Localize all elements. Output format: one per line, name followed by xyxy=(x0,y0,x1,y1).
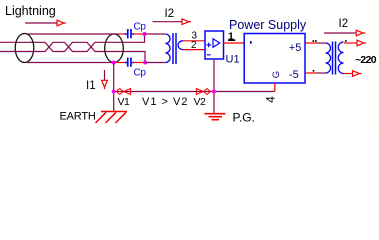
lightning surge direction arrow xyxy=(57,20,66,26)
transformer T1 core xyxy=(172,33,174,64)
node junction dot bottom (shield/cap/T1 primary) xyxy=(143,61,147,65)
svg-text:+5: +5 xyxy=(289,42,302,54)
I2 middle annotation line xyxy=(153,21,183,23)
transformer T1 secondary winding (single loop) xyxy=(178,41,183,50)
wire earth vertical (shield to EARTH ground) xyxy=(113,63,115,112)
transformer T2 phasing dots xyxy=(312,40,347,72)
wire: shield top line xyxy=(26,33,119,35)
svg-text:U1: U1 xyxy=(226,54,240,66)
power supply pin1 tick xyxy=(250,41,252,44)
twisted pair wire B (enters left, crosses, bends up to node A1) xyxy=(0,34,145,52)
node V1 dot xyxy=(112,90,116,94)
I2 right annotation arrow xyxy=(356,30,365,36)
svg-text:EARTH: EARTH xyxy=(60,110,96,122)
svg-text:Cp: Cp xyxy=(134,67,147,78)
svg-text:V2: V2 xyxy=(194,96,207,108)
transformer T1 primary lead bottom xyxy=(145,62,165,64)
svg-text:Lightning: Lightning xyxy=(5,4,56,18)
cable shield right ellipse xyxy=(105,34,124,63)
twisted pair wire A (enters left, crosses, bends down to node B2) xyxy=(0,42,145,62)
wire U1 pin2 xyxy=(183,49,205,51)
transformer T1 primary winding xyxy=(165,34,170,63)
transformer T2 primary lead -5 (red then maroon) xyxy=(305,72,317,74)
transformer T2 core xyxy=(332,42,334,75)
transformer T1 primary lead top xyxy=(145,33,166,35)
power supply box xyxy=(244,34,305,84)
svg-text:~220: ~220 xyxy=(355,54,377,66)
capacitor Cp (bottom) lead right xyxy=(134,62,145,64)
capacitor Cp (bottom) lead left xyxy=(114,62,125,64)
wire U1 pin3 xyxy=(183,40,205,42)
current I1 annotation arrow (down) xyxy=(102,80,108,89)
node V2 dot xyxy=(212,90,216,94)
capacitor Cp (bottom) plates xyxy=(125,58,135,67)
P.G. ground symbol (three bars) xyxy=(205,114,226,120)
svg-text:2: 2 xyxy=(191,40,197,51)
cable shield left ellipse xyxy=(15,34,34,63)
svg-text:G: G xyxy=(271,71,282,78)
current I1 annotation line xyxy=(104,70,106,80)
transformer T2 primary winding xyxy=(326,43,331,73)
probe V1 diamond xyxy=(116,89,123,95)
capacitor Cp (top) plates xyxy=(125,29,135,38)
svg-text:I2: I2 xyxy=(165,8,175,20)
I2 middle annotation arrow xyxy=(182,19,191,25)
wire U1 pin1 to power supply xyxy=(224,42,245,44)
I2 right annotation line xyxy=(324,32,356,34)
lightning surge direction annotation line xyxy=(25,22,57,24)
node junction dot top (shield/cap/T1 primary) xyxy=(143,32,147,36)
EARTH ground symbol (hatched) xyxy=(96,112,128,124)
wire: shield bottom line xyxy=(26,62,114,64)
transformer T2 secondary winding xyxy=(338,42,343,74)
wire power supply G pin down xyxy=(274,83,276,92)
svg-text:Power Supply: Power Supply xyxy=(229,18,307,32)
svg-text:I2: I2 xyxy=(339,18,349,30)
probe V2 arrow (pointing right) xyxy=(196,89,203,95)
svg-text:Cp: Cp xyxy=(134,21,147,32)
transformer T2 secondary bottom lead xyxy=(344,73,353,75)
svg-text:P.G.: P.G. xyxy=(233,111,255,125)
probe V2 diamond xyxy=(204,89,211,95)
transformer T2 secondary top lead xyxy=(344,42,357,44)
capacitor Cp (top) lead left xyxy=(119,33,125,35)
op-amp U1 triangle xyxy=(213,39,220,48)
ground bus wire V1 to power supply G xyxy=(114,91,275,93)
probe V1 arrow (pointing left) xyxy=(124,89,131,95)
op-amp U1 box xyxy=(205,31,224,59)
svg-text:V1 > V2: V1 > V2 xyxy=(142,96,188,108)
svg-text:I1: I1 xyxy=(86,80,96,92)
T2 secondary bottom arrow xyxy=(353,71,362,77)
wire U1 pin4 down to ground bus xyxy=(213,59,215,114)
svg-text:V1: V1 xyxy=(118,96,131,108)
op-amp U1 minus input mark xyxy=(207,54,211,56)
node junction dot at shield bottom / earth wire xyxy=(112,61,116,65)
transformer T2 primary lead +5 (red then maroon) xyxy=(305,42,317,44)
op-amp U1 plus input mark xyxy=(206,43,211,48)
T2 secondary top arrow xyxy=(357,40,366,46)
capacitor Cp (top) lead right xyxy=(134,33,145,35)
svg-text:4: 4 xyxy=(263,96,277,103)
svg-text:-5: -5 xyxy=(289,69,299,81)
